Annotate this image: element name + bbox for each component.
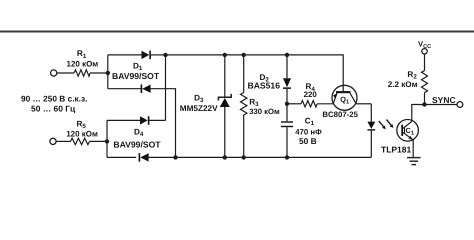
svg-text:R2: R2 bbox=[407, 70, 417, 81]
svg-text:BAV99/SOT: BAV99/SOT bbox=[113, 139, 161, 149]
node D1b anode on bottom rail bbox=[173, 155, 177, 159]
wire top rail bbox=[166, 55, 344, 91]
svg-text:D3: D3 bbox=[194, 93, 204, 104]
node R3 top bbox=[242, 53, 246, 57]
svg-text:BAS516: BAS516 bbox=[248, 81, 281, 91]
input terminal 2 bbox=[50, 138, 56, 144]
wire bbox=[149, 89, 175, 158]
wire bbox=[286, 89, 288, 121]
wire D1 top row bbox=[108, 54, 142, 56]
diode D4b bbox=[139, 153, 141, 162]
resistor R1 bbox=[74, 70, 90, 76]
wire bbox=[90, 140, 108, 142]
wire bbox=[424, 54, 426, 71]
wire R4 to Q1 bbox=[317, 103, 333, 105]
wire SYNC bbox=[425, 104, 458, 106]
wire IC1 emitter bbox=[412, 140, 414, 158]
svg-text:SYNC: SYNC bbox=[432, 95, 456, 105]
svg-text:50 В: 50 В bbox=[299, 136, 317, 146]
node SYNC junction bbox=[422, 102, 426, 106]
zener D3 column wire bbox=[224, 55, 226, 97]
wire D1 left vertical bbox=[107, 55, 109, 89]
node C1 bottom bbox=[285, 155, 289, 159]
svg-text:220: 220 bbox=[304, 90, 318, 99]
wire IC1 collector bbox=[412, 105, 425, 122]
wire R4 left bbox=[287, 103, 301, 105]
light arrow 2 bbox=[386, 120, 391, 126]
wire bottom rail bbox=[145, 156, 371, 158]
svg-text:TLP181: TLP181 bbox=[381, 145, 412, 155]
svg-text:BAV99/SOT: BAV99/SOT bbox=[112, 71, 160, 81]
wire bbox=[150, 54, 165, 56]
wire D1 bottom row bbox=[108, 88, 143, 90]
LED of IC1 bbox=[367, 122, 375, 129]
Vcc terminal bbox=[422, 49, 427, 54]
wire bbox=[90, 72, 108, 74]
diode D1a bbox=[142, 51, 150, 59]
node input2 junction bbox=[105, 139, 109, 143]
diode D4a bbox=[140, 116, 148, 124]
wire bbox=[56, 140, 70, 142]
svg-text:VCC: VCC bbox=[418, 39, 431, 50]
node D2 top bbox=[285, 53, 289, 57]
resistor R3 column bbox=[243, 55, 245, 93]
optocoupler IC1 bbox=[397, 120, 419, 142]
resistor R4 bbox=[301, 101, 317, 107]
svg-text:90 … 250 В с.к.з.: 90 … 250 В с.к.з. bbox=[21, 94, 87, 104]
figure top border bbox=[0, 31, 474, 33]
SYNC terminal bbox=[457, 102, 463, 108]
capacitor C1 bbox=[281, 121, 293, 122]
wire LED column bbox=[370, 104, 372, 122]
wire bottom rail left part bbox=[107, 156, 136, 158]
wire bbox=[286, 127, 288, 157]
svg-text:BC807-25: BC807-25 bbox=[322, 110, 358, 119]
svg-text:Q1: Q1 bbox=[340, 95, 350, 106]
wire bbox=[57, 72, 74, 74]
wire bbox=[424, 93, 426, 105]
node zener top bbox=[223, 53, 227, 57]
svg-text:50 … 60 Гц: 50 … 60 Гц bbox=[31, 103, 76, 113]
input terminal 1 bbox=[51, 70, 57, 76]
wire D4 left vertical bbox=[106, 120, 108, 157]
diode D1b bbox=[141, 84, 143, 93]
svg-text:330 кОм: 330 кОм bbox=[249, 107, 280, 116]
svg-text:120 кОм: 120 кОм bbox=[67, 60, 99, 69]
resistor R5 bbox=[71, 138, 90, 144]
svg-text:IC1: IC1 bbox=[404, 126, 415, 137]
node input1 junction bbox=[106, 71, 110, 75]
svg-text:D4: D4 bbox=[134, 127, 144, 138]
ground bbox=[407, 157, 421, 159]
svg-text:R1: R1 bbox=[77, 49, 87, 60]
diode D2 column bbox=[286, 55, 288, 78]
svg-text:2.2 кОм: 2.2 кОм bbox=[388, 80, 418, 89]
node D1 cathode on top rail bbox=[163, 53, 167, 57]
node R3 bottom bbox=[242, 155, 246, 159]
node C1/R4 junction bbox=[285, 102, 289, 106]
wire bbox=[149, 119, 166, 121]
wire top rail to D4 vertical bbox=[165, 55, 167, 121]
resistor R2 bbox=[422, 71, 428, 93]
wire Q1 collector to LED bbox=[356, 103, 372, 105]
svg-text:C1: C1 bbox=[305, 117, 315, 128]
svg-text:MM5Z22V: MM5Z22V bbox=[180, 104, 218, 113]
light arrow 1 bbox=[379, 121, 384, 127]
transistor Q1 bbox=[332, 85, 357, 110]
svg-text:120 кОм: 120 кОм bbox=[66, 129, 98, 138]
diode D2 bbox=[283, 78, 291, 87]
zener D3 bbox=[220, 98, 230, 107]
node zener bottom bbox=[223, 155, 227, 159]
wire D4 top row bbox=[107, 119, 140, 121]
